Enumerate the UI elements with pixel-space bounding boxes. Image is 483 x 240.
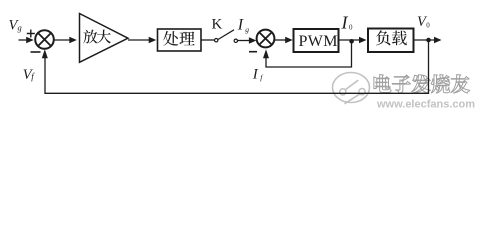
wire S2 to PWM block (274, 37, 292, 43)
switch K contact left (215, 39, 218, 42)
switch K contact right (234, 39, 237, 42)
svg-text:I: I (237, 17, 244, 34)
svg-text:PWM: PWM (299, 33, 338, 50)
block PWM (294, 29, 339, 52)
watermark text www.elecfans.com (376, 99, 475, 111)
wire 处理 to switch K (201, 39, 214, 41)
label Vf (voltage feedback) (23, 67, 36, 83)
label K (212, 17, 223, 33)
minus sign at summing junction S2 (249, 51, 257, 53)
node junction output (426, 38, 431, 43)
wire switch to summing junction S2 (238, 37, 256, 43)
wire current feedback If loop (263, 42, 352, 67)
plus sign at summing junction S1 (27, 30, 35, 38)
svg-text:g: g (18, 22, 22, 32)
wire PWM to load (339, 37, 367, 43)
block 处理 (processing) (158, 29, 202, 51)
wire Vg input (19, 37, 34, 43)
label If (current feedback) (252, 67, 263, 83)
label Io (output current) (341, 13, 354, 33)
summing junction S1 (35, 30, 54, 49)
label Ig (current reference) (237, 17, 249, 35)
watermark logo circle (333, 73, 370, 104)
watermark text 电子发烧友 (374, 75, 470, 94)
wire amplifier to 处理 block (128, 37, 156, 43)
summing junction S2 (257, 30, 275, 48)
svg-text:g: g (245, 25, 249, 34)
node junction after PWM (349, 39, 354, 44)
svg-text:0: 0 (426, 22, 430, 30)
svg-text:I: I (252, 67, 259, 83)
block 负载 (load) (368, 29, 414, 53)
label Vg (input reference voltage) (9, 18, 22, 34)
wire load to output Vo (414, 37, 442, 43)
minus sign at summing junction S1 (31, 51, 41, 53)
wire S1 to amplifier (54, 37, 77, 43)
svg-text:0: 0 (349, 23, 353, 31)
switch K blade (218, 30, 234, 40)
svg-text:I: I (341, 13, 349, 33)
svg-text:www.elecfans.com: www.elecfans.com (376, 99, 475, 111)
op-amp 放大 (amplifier) (80, 14, 129, 63)
label Vo (output voltage) (417, 14, 430, 30)
svg-text:K: K (212, 17, 223, 33)
wire voltage feedback Vf loop (42, 42, 429, 93)
